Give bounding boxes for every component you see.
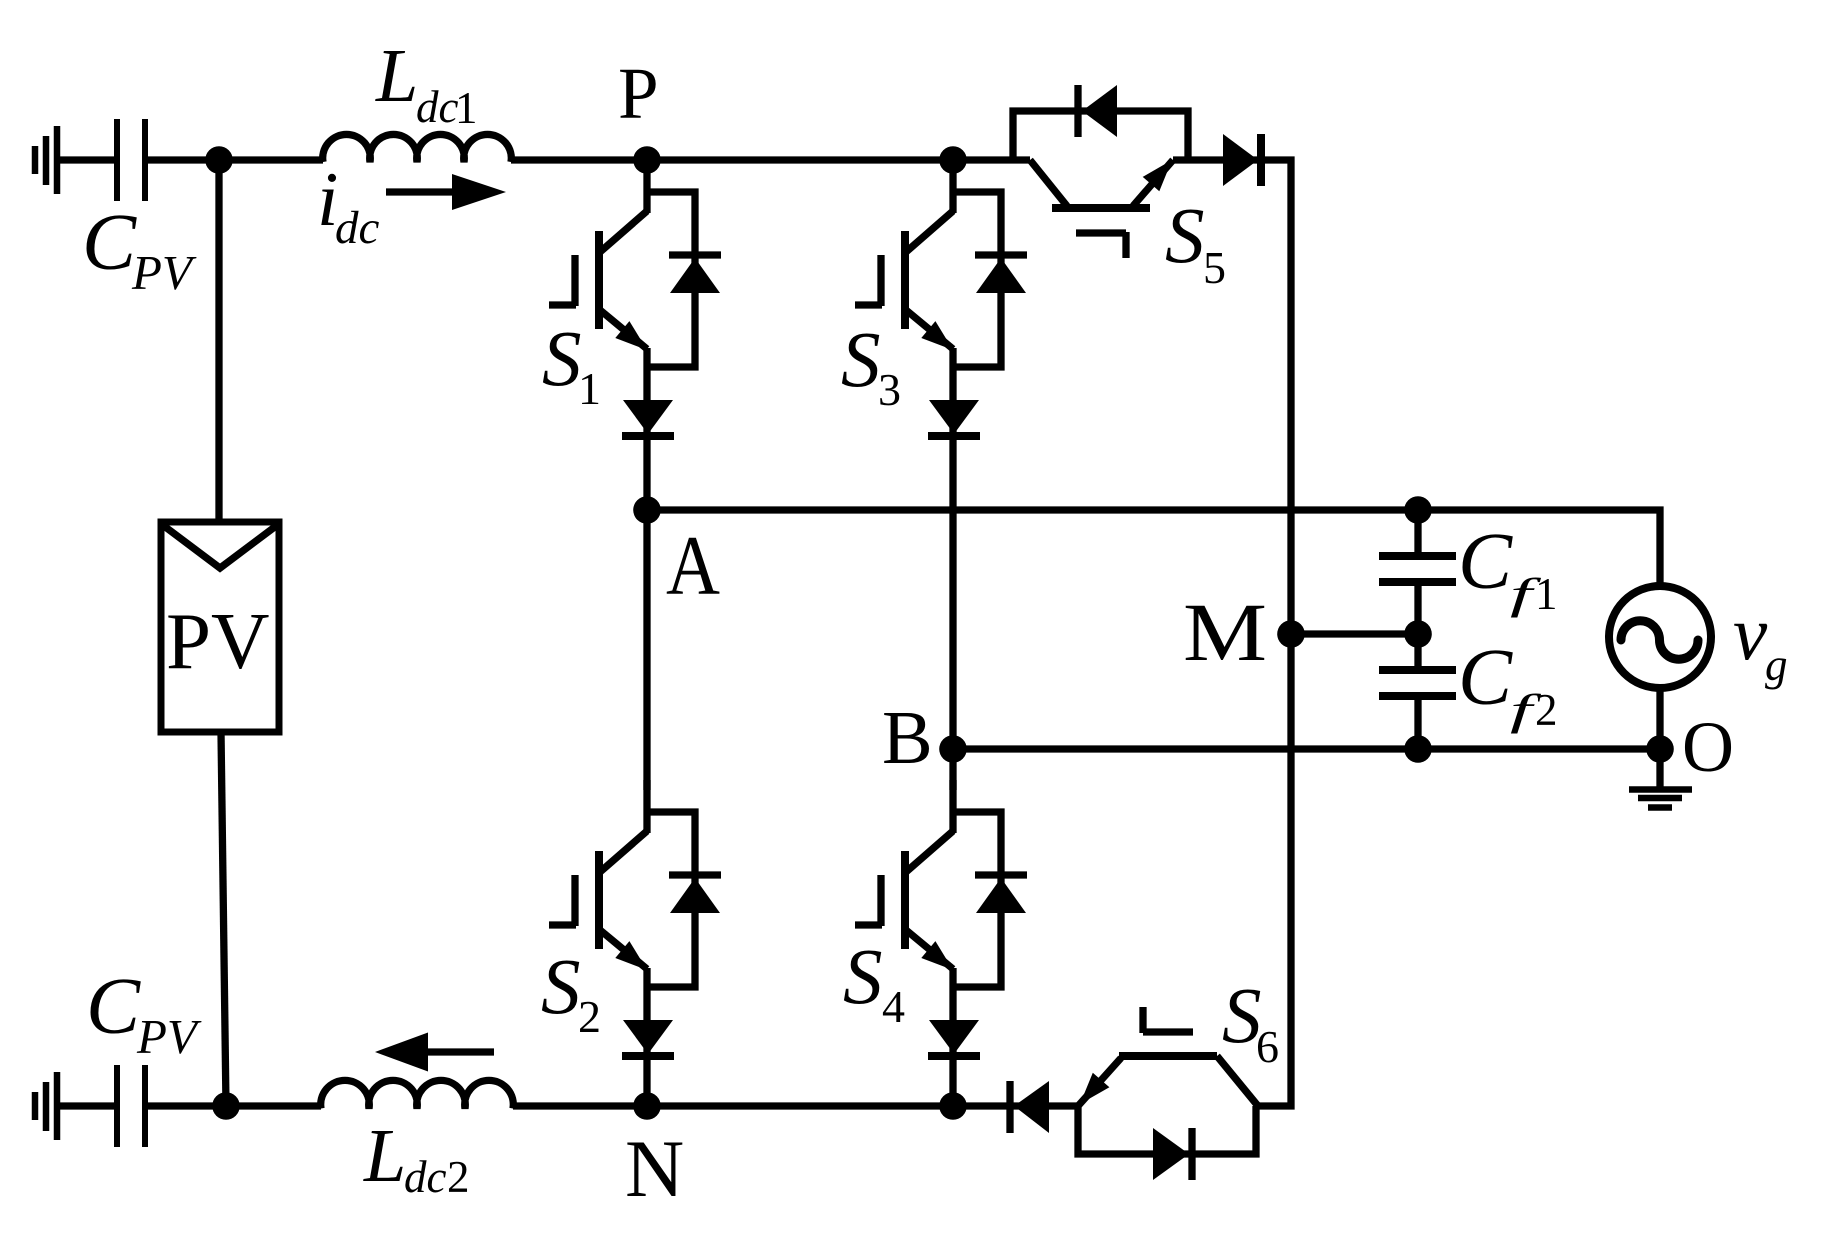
svg-text:C: C <box>1458 632 1513 722</box>
svg-text:M: M <box>1183 586 1267 678</box>
svg-text:dc: dc <box>416 82 459 132</box>
svg-text:5: 5 <box>1203 242 1226 293</box>
svg-text:2: 2 <box>578 991 601 1042</box>
svg-text:S: S <box>542 316 582 403</box>
svg-text:4: 4 <box>882 981 905 1032</box>
svg-text:P: P <box>618 53 659 134</box>
svg-text:6: 6 <box>1256 1021 1279 1072</box>
svg-text:O: O <box>1682 707 1734 787</box>
svg-text:PV: PV <box>136 1009 202 1064</box>
svg-text:1: 1 <box>578 363 601 414</box>
svg-text:PV: PV <box>131 245 197 300</box>
svg-text:g: g <box>1765 640 1788 690</box>
svg-text:1: 1 <box>455 83 478 133</box>
svg-text:A: A <box>666 519 720 613</box>
svg-text:B: B <box>882 696 933 780</box>
svg-text:2: 2 <box>447 1152 470 1202</box>
svg-text:PV: PV <box>166 596 270 686</box>
svg-text:C: C <box>82 197 137 287</box>
svg-text:S: S <box>843 934 883 1021</box>
svg-text:3: 3 <box>878 364 901 415</box>
svg-text:dc: dc <box>404 1152 447 1202</box>
svg-text:S: S <box>541 944 581 1031</box>
svg-text:L: L <box>363 1114 406 1198</box>
svg-text:dc: dc <box>335 202 380 254</box>
svg-text:v: v <box>1733 590 1768 676</box>
svg-text:1: 1 <box>1535 569 1558 619</box>
svg-text:L: L <box>375 34 418 118</box>
svg-text:S: S <box>1165 193 1205 280</box>
svg-text:C: C <box>86 961 141 1051</box>
svg-text:S: S <box>841 317 881 404</box>
svg-text:C: C <box>1458 516 1513 606</box>
svg-text:2: 2 <box>1535 685 1558 735</box>
svg-text:N: N <box>625 1123 684 1214</box>
